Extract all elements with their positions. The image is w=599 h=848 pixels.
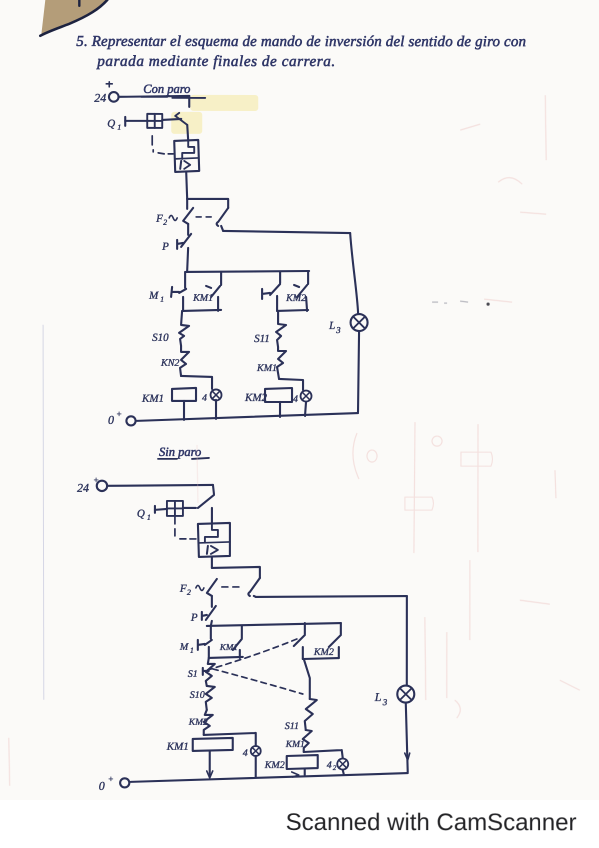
wire below lamp <box>255 756 257 777</box>
dashed link F2 <box>222 586 239 588</box>
wire top rail <box>108 485 213 486</box>
svg-text:P: P <box>190 612 198 624</box>
pilot lamp 4 <box>243 748 248 759</box>
svg-text:F: F <box>179 583 187 595</box>
pilot lamp 4 (right) <box>293 394 298 405</box>
terminal 0V <box>108 409 122 427</box>
wire below lamp L2 <box>343 770 344 774</box>
lamp L3 <box>328 320 341 335</box>
interlock KM1 (NC) <box>256 363 277 374</box>
svg-text:4: 4 <box>293 394 298 405</box>
svg-text:24: 24 <box>77 481 89 495</box>
pair bottom rail <box>209 657 243 658</box>
dashed link F2 <box>196 216 211 218</box>
terminal 0V <box>99 774 114 793</box>
svg-text:Sin paro: Sin paro <box>159 445 201 459</box>
wire below coil KM2 <box>304 769 306 775</box>
svg-text:L: L <box>328 320 335 332</box>
bottom rail 0V <box>131 773 408 782</box>
interlock KM1 (NC) <box>285 740 305 750</box>
notebook margin line bleed <box>43 325 44 700</box>
pushbutton M2 (NO, right pair) <box>279 272 281 283</box>
svg-text:4: 4 <box>243 748 248 759</box>
faint reverse-side bleed-through marks <box>9 95 581 786</box>
svg-text:24: 24 <box>94 91 106 105</box>
svg-text:M: M <box>179 642 189 653</box>
svg-text:0: 0 <box>108 413 114 427</box>
coil KM2 <box>264 760 285 771</box>
F2 aux contact <box>217 208 229 226</box>
svg-text:2: 2 <box>163 218 167 227</box>
limit switch S10 (NC) <box>152 332 169 344</box>
svg-text:S10: S10 <box>190 690 205 701</box>
wire to lamp branch right <box>223 231 350 233</box>
junction to pilot lamp <box>181 376 212 389</box>
svg-text:M: M <box>148 290 159 302</box>
svg-text:0: 0 <box>99 779 105 793</box>
limit switch S11 left (NO with link) <box>188 669 198 680</box>
corner patch (scan artifact) <box>40 0 107 36</box>
junction to pilot lamp right <box>279 379 303 390</box>
overload relay I> box U2 <box>198 523 230 557</box>
contact KM2 (NO seal-in) <box>285 293 306 304</box>
svg-text:parada mediante finales de car: parada mediante finales de carrera. <box>96 53 335 70</box>
contact KM1 (NO) <box>219 642 238 652</box>
limit switch S10 (NC) <box>190 690 205 701</box>
svg-text:3: 3 <box>335 325 341 335</box>
svg-text:5. Representar el esquema de m: 5. Representar el esquema de mando de in… <box>76 34 526 50</box>
junction to pilot lamp right <box>304 750 343 758</box>
wire below overload <box>211 557 213 568</box>
pair bottom rail <box>183 310 221 311</box>
stray dark dot <box>486 303 489 306</box>
wire top rail <box>119 96 189 97</box>
svg-text:Q: Q <box>107 118 115 130</box>
svg-text:S11: S11 <box>285 721 299 732</box>
lamp L3 <box>374 690 388 707</box>
limit switch S11 right (NO) <box>285 721 299 732</box>
svg-text:KM1: KM1 <box>256 363 277 374</box>
svg-text:+: + <box>108 774 114 784</box>
interlock KN2 (NC) <box>160 358 179 369</box>
svg-text:1: 1 <box>160 295 164 304</box>
contact KM1 (NO seal-in) <box>192 293 213 304</box>
svg-text:KM1: KM1 <box>285 740 305 750</box>
terminal 24V+ <box>94 91 106 105</box>
svg-text:KM2: KM2 <box>313 647 334 658</box>
contact KM2 (NO) <box>313 647 334 658</box>
pushbutton M1 (NO) <box>148 290 164 304</box>
svg-text:Q: Q <box>137 508 145 520</box>
wire down right branch <box>304 659 310 699</box>
pushbutton P (NC) <box>161 241 169 253</box>
svg-text:KM2: KM2 <box>264 760 285 771</box>
overload relay I> box U1 <box>174 140 199 172</box>
wire below coil KM2 <box>279 402 281 417</box>
thermal contact F2 <box>155 213 167 227</box>
pilot lamp 4 (left) <box>202 393 207 404</box>
pilot lamp L2 <box>327 760 337 772</box>
wire below lamp <box>215 400 217 419</box>
wire down to lamp L3 <box>406 596 408 685</box>
svg-text:L: L <box>374 690 382 704</box>
contact M2/KM2 pair right : left contact <box>304 623 306 634</box>
interlock KM2 (NC) <box>188 718 208 728</box>
dashed mechanical link A <box>208 639 297 670</box>
svg-text:1: 1 <box>147 513 151 522</box>
breaker Q1 <box>107 118 121 132</box>
thermal contact F2 <box>179 583 191 597</box>
wire down to Q1 <box>188 96 190 107</box>
junction T to aux branch <box>212 567 260 578</box>
bottom rail 0V <box>137 413 358 421</box>
terminal 24V+ <box>77 475 99 495</box>
svg-text:+: + <box>116 409 122 419</box>
label Sin paro <box>159 445 201 459</box>
svg-text:Con paro: Con paro <box>143 82 190 96</box>
pushbutton P (NC) <box>190 612 198 624</box>
svg-text:Scanned with CamScanner: Scanned with CamScanner <box>286 809 577 836</box>
coil KM2 <box>244 392 268 404</box>
F2 aux contact <box>248 578 260 596</box>
svg-text:S11: S11 <box>254 333 270 345</box>
dashed trip link <box>152 136 173 154</box>
pair bottom rail <box>303 658 339 659</box>
pushbutton M1 (NO) <box>179 642 194 655</box>
wire below lamp right <box>305 402 306 416</box>
svg-text:P: P <box>161 241 169 253</box>
wire below lamp L3 <box>358 331 359 412</box>
svg-text:KM1: KM1 <box>192 293 213 304</box>
svg-text:4: 4 <box>202 393 207 404</box>
svg-text:KM2: KM2 <box>285 293 306 304</box>
svg-text:KM1: KM1 <box>166 741 189 753</box>
branch top rail <box>186 271 309 272</box>
svg-text:KN2: KN2 <box>160 358 179 369</box>
label Con paro <box>143 82 190 96</box>
breaker Q1 <box>137 508 151 522</box>
pair bottom rail <box>277 310 308 311</box>
svg-text:3: 3 <box>382 697 388 707</box>
svg-text:1: 1 <box>117 123 121 132</box>
wire to lamp branch right <box>256 596 407 597</box>
wire below overload <box>186 172 187 199</box>
dashed mechanical link B <box>213 669 303 694</box>
svg-text:F: F <box>155 213 163 225</box>
svg-text:1: 1 <box>190 646 194 655</box>
highlighter marks <box>190 95 258 111</box>
coil KM1 <box>166 741 189 753</box>
junction T to aux branch <box>187 199 228 208</box>
svg-text:2: 2 <box>187 588 191 597</box>
wire down to lamp L3 <box>350 233 358 313</box>
svg-text:S1: S1 <box>188 669 198 680</box>
svg-text:KM1: KM1 <box>141 393 164 405</box>
junction to pilot lamp <box>204 733 256 746</box>
wire into overload box <box>187 125 188 141</box>
dashed trip link <box>175 517 196 539</box>
svg-text:2: 2 <box>333 764 337 772</box>
svg-text:4: 4 <box>327 760 332 771</box>
branch top rail <box>207 623 341 626</box>
coil KM1 <box>141 393 164 405</box>
wire below coil KM1 <box>183 401 185 420</box>
svg-text:S10: S10 <box>152 332 169 344</box>
wire below coil KM1 with arrow <box>209 751 211 777</box>
wire below lamp L3 with arrow <box>406 703 408 772</box>
limit switch S11 (NC) <box>254 333 270 345</box>
